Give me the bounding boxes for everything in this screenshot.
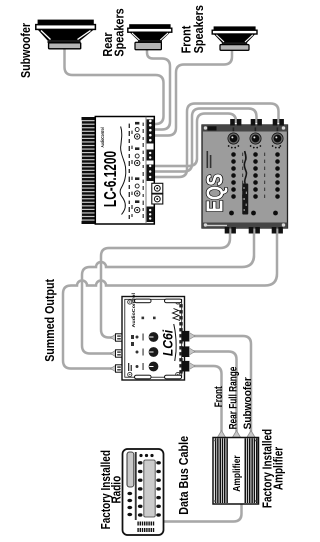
LC6 input plug 2 [111,350,116,357]
LC6 output tab 2 [182,346,189,357]
LC6 small top marks [128,335,134,371]
EQS right dark edge [202,125,288,132]
svg-text:EQS: EQS [203,173,228,212]
svg-text:Amplifier: Amplifier [231,455,243,492]
rear speaker [128,24,172,50]
radio separator bar [135,452,137,520]
LC6 bottom terminal comb [179,304,182,373]
factory amp fins top [216,438,228,503]
label Factory Installed Amplifier [262,429,286,508]
svg-text:Front: Front [180,26,194,54]
wire summed output 3 LC6 to EQS with two hops [63,229,277,369]
EQS center print block and response curve [242,151,248,215]
wire data bus cable radio to factory amp [163,503,242,522]
radio button row 2 [156,461,161,517]
EQS level knob 1 [228,127,240,148]
svg-text:LC-6.1200: LC-6.1200 [101,151,121,207]
wire EQS output 3 to amp input [150,104,279,178]
label Rear Speakers [102,8,127,57]
front speaker [212,26,257,50]
factory amp fins bottom [245,438,257,503]
svg-text:AudioControl: AudioControl [99,127,105,147]
EQS band dots row 1 [231,152,236,199]
svg-text:Front: Front [213,386,225,408]
svg-text:Amplifier: Amplifier [273,446,286,490]
EQS small print lines [207,151,209,168]
LC6 mounting slots left [135,375,152,379]
radio top-left buttons [127,492,132,516]
amplifier LC-6.1200 [82,117,163,225]
LC6 input plug 1 (top, from summed wire) [111,334,116,341]
svg-text:Rear Full Range: Rear Full Range [227,366,239,429]
radio button row 1 [138,461,143,517]
factory amplifier [213,438,259,505]
LC6 small squares right [142,317,145,320]
EQS corner screws [204,223,207,226]
radio display screen [144,460,155,517]
label Front Speakers [180,5,207,54]
wire EQS output 1 to amp input [150,114,237,167]
EQS input tab pair 1 [225,227,230,234]
LC6 knob labels [136,334,144,371]
EQS input tab pair 3 [272,227,277,234]
amp control row tiny labels [129,124,133,219]
LC6 trim knob 1 [149,362,159,372]
wire summed output 1 LC6 to EQS [101,229,230,338]
LC6 mounting slots right [135,299,152,303]
wire rear speaker to amp output [147,50,170,130]
line converter LC6i [111,292,196,380]
EQS frequency label marks [242,153,265,198]
amp terminal edge divider [145,117,147,225]
factory amp corner screws [214,500,216,502]
LC6 output tab 3 [182,361,189,372]
wire subwoofer channel factory amp to LC6 [193,336,251,432]
wire subwoofer speaker to amp output [65,49,164,124]
radio CD slot [127,452,134,487]
EQS band dots row 3 [275,152,280,199]
LC6 output tab 1 (to subwoofer label wire) [182,331,189,342]
amp input terminal block [147,165,154,182]
svg-text:AudioControl: AudioControl [132,292,137,327]
LC6 chassis [122,297,185,381]
radio right dots [139,454,142,457]
connector triangles at factory amplifier [217,431,255,438]
svg-text:Radio: Radio [111,476,124,504]
amp speaker terminal block [147,119,154,143]
LC6 zigzag mark [173,309,181,321]
LC6 trim knob 3 [149,332,159,342]
wire front speaker to amp output [149,50,232,136]
wire summed output 2 LC6 to EQS with hop [82,229,254,354]
factory radio [123,449,164,535]
EQS band dots row 2 [253,152,258,199]
svg-text:Data Bus Cable: Data Bus Cable [177,435,191,514]
EQS input tab pair 2 [249,227,254,234]
LC6 corner screws [128,300,180,377]
EQS output tab pair 2 [251,119,256,126]
EQS level knob 3 [272,127,283,148]
svg-text:Speakers: Speakers [192,5,206,54]
EQS left dark edge [202,223,288,229]
svg-text:Summed Output: Summed Output [42,279,57,362]
EQS vent top right [208,126,217,130]
EQS white print on left edge [207,225,227,226]
LC6 trim knob 2 [149,347,159,357]
EQS level knob 2 [250,127,262,148]
LC6 input plug 3 [111,365,116,372]
heatsink fins [82,117,96,224]
equalizer EQS [202,119,288,234]
svg-text:Subwoofer: Subwoofer [18,23,33,78]
wire front channel factory amp to LC6 [193,366,222,432]
amp RCA jacks [152,183,163,204]
amp power terminal block [147,207,154,223]
amp mid terminal block [147,150,154,161]
svg-text:LC6i: LC6i [160,329,176,356]
wire EQS output 2 to amp input [150,109,257,172]
amp wave graphic [120,127,126,215]
amp chassis body [95,117,154,225]
EQS bass dots column [229,211,234,216]
label Factory Installed Radio [100,450,124,529]
subwoofer speaker [36,20,96,49]
wire rear full range factory amp to LC6 [193,352,237,432]
radio keypad columns [137,522,154,533]
EQS chassis [202,125,288,228]
amp control knobs [135,128,140,213]
svg-text:Subwoofer: Subwoofer [241,377,253,429]
EQS output tab pair 1 [230,119,235,126]
svg-text:Speakers: Speakers [113,8,127,57]
EQS output tab pair 3 [273,119,278,126]
